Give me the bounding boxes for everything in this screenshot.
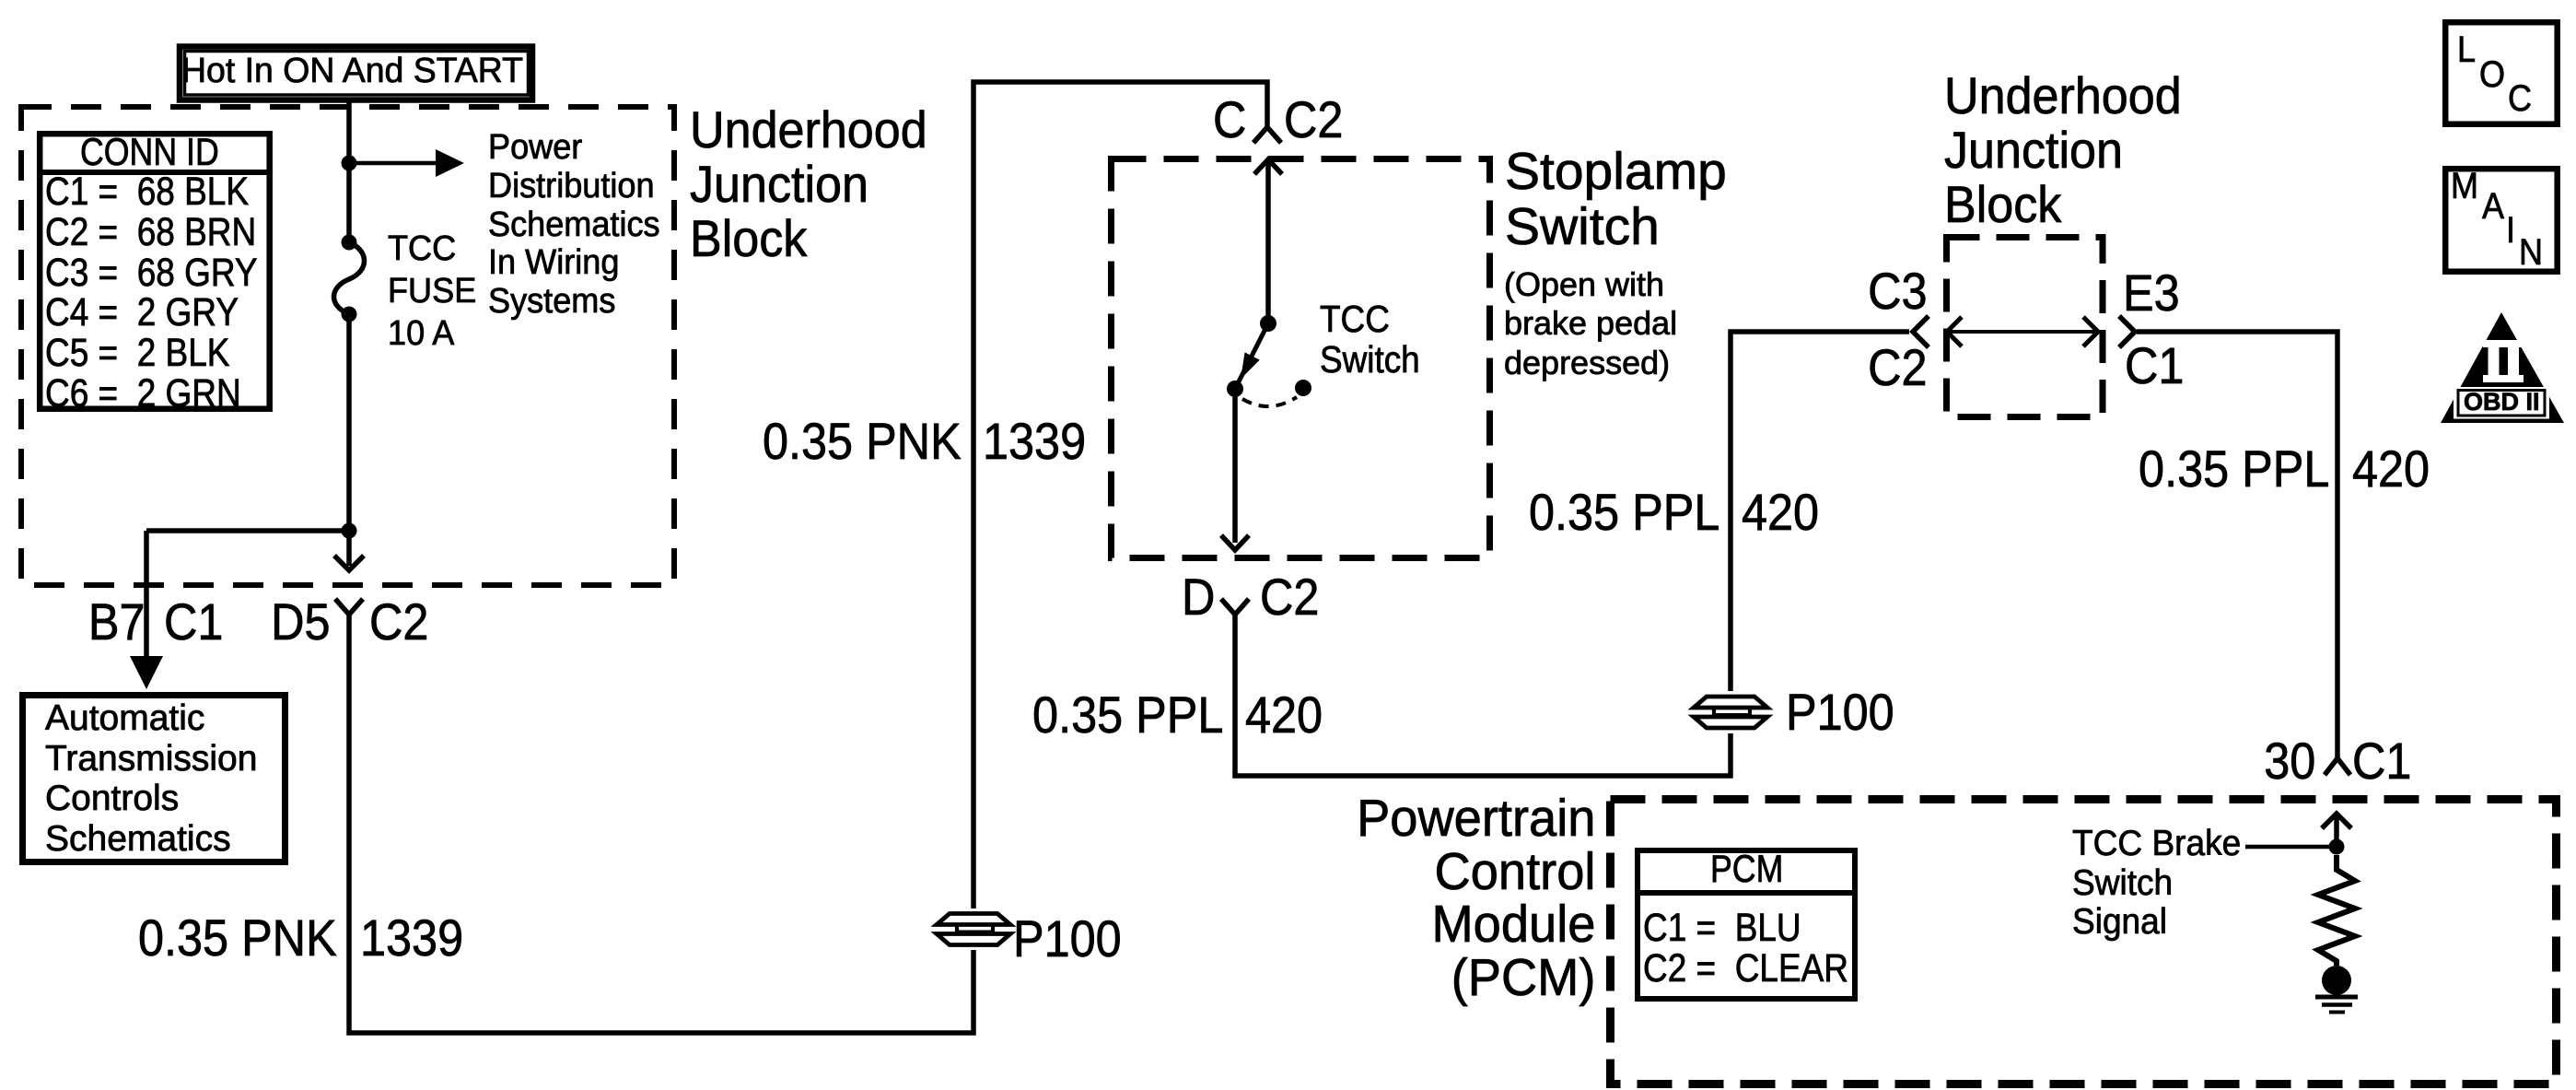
connector chevron C3/C2 (female half) [1913,316,1929,347]
wire: TCC Brake Switch Signal tap [2245,845,2337,850]
wire label: 0.35 PPL (right) [2139,443,2329,495]
wire: arrow line to Power Distribution [349,161,437,166]
arrow: exit Underhood Junction Block at D5 [346,531,352,566]
pin label: D [1182,571,1215,623]
symbol: OBD II triangle [2441,312,2564,423]
table rows: connector ids [45,172,258,415]
node: junction dot above D5 connector [342,523,357,539]
table header separator: CONN ID [37,170,273,175]
ground symbol [2315,995,2358,1000]
wire label: 0.35 PNK (middle) [763,416,962,467]
box label: Automatic Transmission Controls Schematics [45,698,257,859]
connector label: C2 (bottom) [1260,571,1319,623]
title: Powertrain Control Module (PCM) [1357,792,1595,1004]
arrow: into PCM at pin 30 [2322,814,2351,828]
switch contact dot (right) [1295,380,1311,396]
connector label: C1 (junction block) [2125,340,2184,392]
pin label: 30 [2264,735,2315,787]
wire label: 420 (middle right) [1742,486,1819,538]
dashed box: Underhood Junction Block (left) [21,107,674,585]
resistor (pull-down inside PCM) [2318,855,2355,966]
fuse terminal dot (bottom) [342,307,357,322]
dashed box: Underhood Junction Block (right) [1947,238,2104,417]
arrow: into Stoplamp Switch at C [1254,159,1282,174]
inline connector P100 (right) [1694,697,1767,728]
label: P100 (right) [1786,686,1894,738]
connector symbol D5/C2 [335,599,363,615]
ground dot [2322,966,2351,995]
switch blade: TCC Switch [1235,323,1268,389]
wire: P100 up, across top, down to C/C2 [973,82,1267,908]
fuse terminal dot (top) [342,235,357,251]
wire: P100 up to junction block run [1731,332,1909,691]
pin label: C3 [1869,265,1928,317]
box: Automatic Transmission Controls Schematics [23,696,286,862]
wire: down to Automatic Transmission box [144,531,149,657]
symbol box: LOC [2445,22,2558,124]
wire label: 1339 (middle) [983,416,1086,467]
double arrow inside junction block [1946,330,2099,334]
symbol letter: C [2508,80,2532,117]
dashed box: Powertrain Control Module (PCM) [1611,800,2557,1084]
symbol letter: O [2479,56,2505,93]
symbol letter: L [2457,31,2476,68]
title: Stoplamp Switch [1505,144,1727,255]
label: Hot In ON And START [181,53,523,88]
pin label: B7 [87,596,145,648]
switch contact dot (left) [1227,381,1243,397]
pin label: E3 [2123,267,2180,319]
fuse: TCC FUSE 10 A [334,242,365,314]
switch travel dashed arc [1242,397,1297,406]
node: TCC brake switch signal dot [2329,839,2345,855]
wire label: 0.35 PNK (bottom) [138,912,337,964]
connector chevron E3/C1 (male half) [2119,316,2135,347]
wire: 0.35 PPL 420 run (D/C2 down, right, up to P100) [1235,615,1731,776]
wire: from Hot box down to fuse [346,100,352,242]
switch pivot dot [1260,315,1276,332]
arrowhead: to Power Distribution [436,149,464,177]
table frame: PCM [1638,850,1855,999]
arrow: exit Stoplamp Switch at D [1221,535,1249,550]
wire: switch to D connector [1232,389,1238,543]
symbol letter: A [2482,188,2504,225]
inline connector P100 (lower left) [937,914,1010,945]
label: Power Distribution Schematics In Wiring Systems [488,129,660,322]
label: P100 (lower) [1013,913,1122,965]
node: junction dot at power distribution tap [342,156,357,171]
OBD II label plate [2454,387,2549,419]
label: OBD II [2464,390,2540,415]
table title: CONN ID [80,133,219,171]
connector label: C2 (left) [369,596,428,648]
title: Underhood Junction Block (left) [690,102,927,265]
wire: branch to Automatic Transmission schematics [146,528,349,533]
wire label: 0.35 PPL (middle right) [1529,486,1719,538]
connector label: C1 (PCM) [2352,735,2411,787]
wire: 0.35 PNK 1339 run (D5/C2 down, bottom run, up to P100) [349,615,973,1033]
arrowhead on switch blade [1241,352,1260,379]
dashed box: Stoplamp Switch [1112,159,1490,558]
table frame: CONN ID [40,134,270,409]
wire label: 420 (right) [2352,443,2430,495]
symbol letter: I [2506,212,2515,249]
OBD II pillar glyph [2483,340,2524,382]
box: Hot In ON And START (inner) [185,52,529,96]
wire label: 0.35 PPL (lower middle) [1032,689,1223,741]
connector label: C2 (top) [1284,94,1343,146]
table rows: PCM connectors [1643,908,1848,989]
title: Underhood Junction Block (right) [1944,69,2182,232]
wire: fuse to lower junction [346,314,352,531]
connector symbol D/C2 [1221,599,1249,615]
wire: to PCM, 0.35 PPL 420 [2137,332,2337,757]
connector symbol 30/C1 [2325,758,2350,775]
table title: PCM [1710,850,1783,888]
table header separator: PCM [1635,890,1858,896]
pin label: C [1213,94,1246,146]
label: TCC FUSE 10 A [388,228,476,356]
note: open with brake pedal depressed [1504,265,1677,382]
wire label: 420 (lower middle) [1245,689,1323,741]
pin label: D5 [272,596,331,648]
connector label: C2 (junction block) [1869,342,1928,393]
symbol box: MAIN [2445,169,2558,272]
label: TCC Switch [1320,299,1420,381]
wire label: 1339 (bottom) [360,912,463,964]
connector label: C1 (left) [164,596,223,648]
box: Hot In ON And START (outer) [180,47,532,100]
arrowhead: into Automatic Transmission box [130,656,163,689]
label: TCC Brake Switch Signal [2072,825,2241,943]
symbol letter: N [2519,234,2543,271]
connector symbol C/C2 [1253,127,1281,143]
symbol letter: M [2451,168,2478,205]
